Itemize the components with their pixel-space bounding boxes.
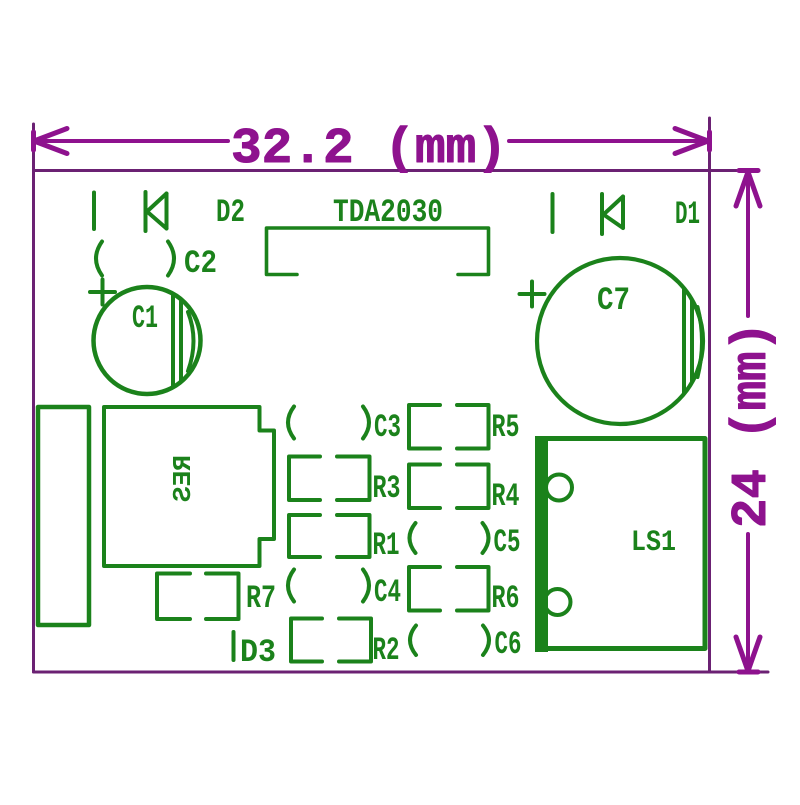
- capacitor C4 body: [288, 570, 294, 602]
- svg-text:32.2 (mm): 32.2 (mm): [231, 121, 507, 178]
- vertical dimension line 24mm: [736, 171, 760, 673]
- jumper bar right: [551, 194, 555, 232]
- svg-text:R5: R5: [492, 409, 520, 446]
- svg-text:C3: C3: [374, 409, 401, 446]
- svg-text:R2: R2: [373, 632, 400, 669]
- svg-text:C6: C6: [495, 626, 522, 663]
- green labels: [132, 194, 700, 671]
- svg-text:R6: R6: [492, 580, 520, 617]
- svg-text:R3: R3: [373, 470, 401, 507]
- resistor R6: [409, 567, 489, 611]
- jumper bar left: [92, 193, 96, 230]
- svg-text:C4: C4: [374, 574, 401, 611]
- svg-text:D3: D3: [240, 634, 276, 671]
- capacitor C7 body: [537, 258, 703, 424]
- svg-text:R4: R4: [492, 478, 520, 515]
- svg-text:C5: C5: [494, 524, 521, 561]
- resistor R2: [291, 619, 371, 662]
- svg-text:D2: D2: [216, 194, 245, 231]
- svg-text:R7: R7: [246, 580, 276, 617]
- plus mark C7: [520, 282, 545, 307]
- board outline: [34, 118, 769, 672]
- diode D1: [600, 194, 604, 234]
- svg-text:R1: R1: [373, 527, 400, 564]
- capacitor C3 body: [288, 407, 294, 439]
- svg-text:C7: C7: [597, 282, 630, 319]
- capacitor C5 body: [410, 523, 416, 553]
- svg-text:C2: C2: [184, 245, 217, 282]
- capacitor C1 body: [94, 287, 201, 394]
- svg-text:RES: RES: [168, 455, 198, 502]
- capacitor C6 body: [410, 626, 416, 656]
- svg-text:C1: C1: [132, 300, 158, 337]
- TDA2030 outline: [267, 228, 489, 275]
- silkscreen green: [38, 192, 705, 662]
- svg-text:D1: D1: [675, 196, 700, 233]
- speaker terminal LS1: [538, 439, 706, 649]
- resistor R5: [409, 405, 489, 449]
- diode D3 bar: [232, 632, 236, 660]
- resistor R7: [157, 574, 239, 620]
- svg-text:24 (mm): 24 (mm): [724, 322, 781, 528]
- resistor R4: [409, 465, 489, 509]
- LS1 screw hole top: [546, 475, 572, 501]
- capacitor C2 body: [96, 242, 102, 276]
- resistor R3: [289, 457, 370, 501]
- LS1 screw hole bottom: [545, 589, 571, 615]
- plus mark C1: [90, 280, 115, 305]
- resistor R1: [289, 515, 370, 557]
- diode D2: [144, 192, 148, 231]
- horizontal dimension line 32.2mm: [34, 129, 710, 154]
- svg-text:TDA2030: TDA2030: [333, 194, 443, 231]
- RES power resistor outline: [104, 407, 274, 566]
- left connector tall rectangle: [38, 407, 89, 625]
- svg-text:LS1: LS1: [631, 526, 676, 560]
